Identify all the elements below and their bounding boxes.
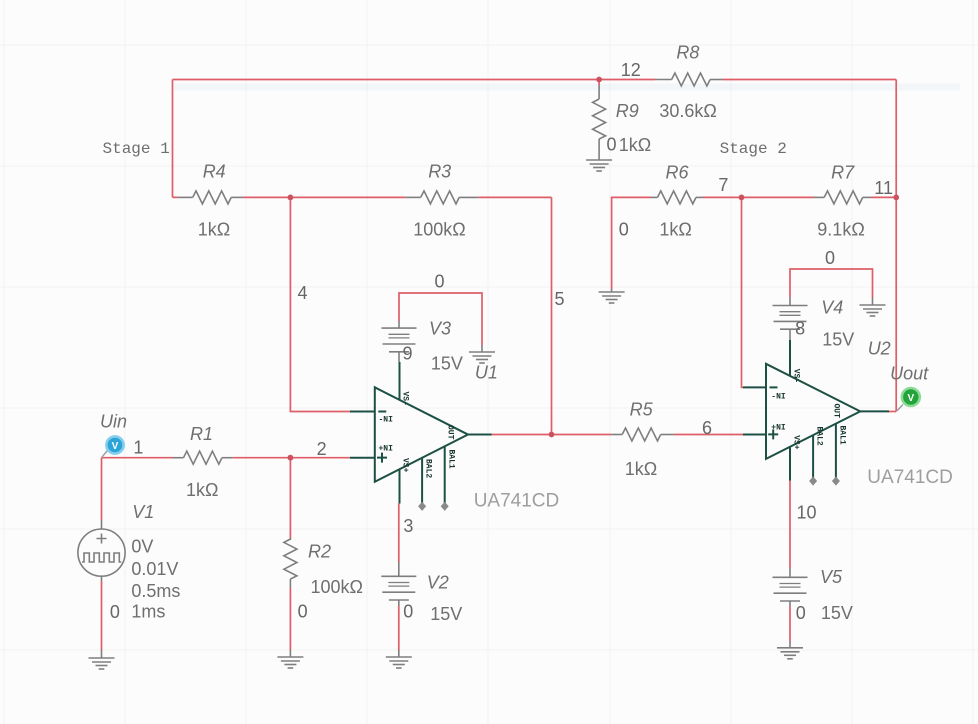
resistor R5 [611, 400, 674, 479]
wire V2 bottom to ground [398, 606, 400, 650]
svg-text:V1: V1 [132, 502, 154, 522]
svg-text:5: 5 [555, 289, 565, 309]
svg-text:V: V [112, 441, 119, 452]
battery V3 [382, 318, 463, 373]
wire node 5 vertical [551, 197, 553, 434]
junction node 11 [893, 195, 899, 201]
svg-text:VS-: VS- [791, 369, 800, 383]
svg-text:R5: R5 [630, 400, 654, 420]
wire top row right of R8 [722, 79, 896, 81]
svg-text:0: 0 [619, 219, 629, 239]
wire U1 output to node 5 junction [492, 434, 552, 436]
resistor R4 [178, 162, 243, 240]
pin BAL2 end U1 [418, 502, 426, 511]
probe Uout [890, 364, 929, 411]
svg-text:VS+: VS+ [401, 458, 410, 473]
svg-text:1kΩ: 1kΩ [186, 480, 218, 500]
svg-text:30.6kΩ: 30.6kΩ [659, 101, 717, 121]
svg-text:-NI: -NI [379, 416, 394, 425]
svg-text:0: 0 [298, 601, 308, 621]
svg-text:100kΩ: 100kΩ [413, 220, 466, 240]
svg-text:R1: R1 [190, 424, 213, 444]
wire row2 R4-R3 segments [173, 196, 552, 198]
svg-text:U1: U1 [475, 362, 498, 382]
wire node 1 row from probe to R1 [102, 457, 174, 459]
svg-text:100kΩ: 100kΩ [311, 577, 364, 597]
svg-text:6: 6 [702, 418, 712, 438]
junction node 5 output U1 [549, 432, 555, 438]
svg-text:BAL1: BAL1 [446, 450, 455, 469]
svg-text:Stage 2: Stage 2 [720, 140, 787, 158]
svg-text:15V: 15V [431, 354, 463, 374]
svg-text:1ms: 1ms [131, 602, 165, 622]
resistor R9 [593, 85, 652, 160]
svg-text:VS-: VS- [401, 392, 410, 406]
resistor R7 [814, 162, 871, 239]
svg-text:R6: R6 [666, 162, 690, 182]
svg-text:R2: R2 [308, 542, 331, 562]
svg-text:15V: 15V [821, 603, 853, 623]
svg-text:V2: V2 [427, 573, 449, 593]
svg-text:R8: R8 [676, 42, 699, 62]
wire node 7 row segment [703, 196, 814, 198]
svg-text:V: V [907, 393, 914, 404]
resistor R2 [284, 538, 363, 597]
wire V1 bottom lead to ground [101, 581, 103, 650]
svg-text:0V: 0V [131, 537, 153, 557]
op-amp U1 UA741CD [350, 362, 559, 512]
ground right of V4 [860, 298, 886, 316]
probe Uin [100, 412, 127, 458]
ground below R2 [277, 650, 303, 668]
op-amp U2 UA741CD [743, 339, 953, 489]
pin BAL1 end U2 [832, 476, 840, 485]
svg-text:VS+: VS+ [791, 435, 800, 450]
svg-text:4: 4 [298, 283, 308, 303]
wire node 4 vertical to U1 inverting input [290, 197, 350, 411]
svg-text:8: 8 [795, 319, 805, 339]
svg-text:0: 0 [403, 601, 413, 621]
ground below V1 [89, 650, 115, 669]
wire R9 top stub [598, 80, 600, 86]
battery V5 [773, 567, 853, 623]
wire node 11 row segment [871, 196, 896, 198]
wire R5 row segments node 6 [552, 434, 744, 436]
svg-text:0: 0 [110, 602, 120, 622]
svg-text:Uout: Uout [890, 364, 929, 384]
wire node 2 row R1 to U1 noninverting input [233, 457, 350, 459]
svg-text:R3: R3 [428, 162, 451, 182]
ground below V5 [777, 641, 803, 659]
wire top feedback row node 12 [173, 79, 656, 81]
svg-text:0.01V: 0.01V [131, 559, 178, 579]
svg-text:10: 10 [797, 502, 817, 522]
svg-text:1kΩ: 1kΩ [619, 135, 651, 155]
pin BAL2 end U2 [809, 476, 817, 485]
battery V2 [381, 562, 462, 624]
wire V1 top lead [101, 458, 103, 520]
svg-text:+NI: +NI [771, 424, 786, 433]
svg-text:3: 3 [403, 516, 413, 536]
svg-text:OUT: OUT [446, 425, 455, 440]
svg-text:0: 0 [607, 135, 617, 155]
resistor R3 [406, 162, 479, 240]
junction node 7 [739, 195, 745, 201]
svg-text:UA741CD: UA741CD [867, 467, 953, 488]
wire V4 zero-net box [790, 269, 873, 298]
svg-text:15V: 15V [430, 604, 462, 624]
svg-text:1kΩ: 1kΩ [659, 219, 691, 239]
pin BAL1 end U1 [441, 502, 449, 511]
svg-text:1: 1 [133, 437, 143, 457]
ground below R6 node 0 [599, 289, 625, 303]
svg-text:11: 11 [874, 178, 893, 198]
wire U2 output to node 11 [889, 411, 897, 413]
resistor R6 [651, 162, 703, 239]
ground below R9 node 0 [586, 160, 612, 171]
svg-text:R4: R4 [203, 162, 226, 182]
svg-text:BAL2: BAL2 [424, 459, 433, 478]
svg-text:0.5ms: 0.5ms [131, 581, 180, 601]
svg-text:UA741CD: UA741CD [474, 491, 560, 512]
svg-text:V4: V4 [821, 298, 843, 318]
wire R6 left leg to ground [612, 197, 651, 289]
svg-text:7: 7 [718, 175, 728, 195]
svg-text:Stage 1: Stage 1 [103, 140, 170, 158]
svg-text:1kΩ: 1kΩ [198, 220, 230, 240]
wire R2 bottom to ground [289, 588, 291, 650]
ground below V2 [386, 650, 412, 668]
junction node 12 [596, 77, 602, 83]
wire V5 bottom to ground [789, 607, 791, 642]
svg-text:0: 0 [435, 272, 445, 292]
wire U1 VS+ to V2 [398, 504, 400, 563]
svg-text:0: 0 [796, 603, 806, 623]
svg-text:OUT: OUT [832, 404, 841, 419]
svg-text:R7: R7 [831, 162, 855, 182]
svg-text:BAL1: BAL1 [837, 426, 846, 445]
battery V4 [773, 297, 855, 350]
svg-text:15V: 15V [822, 330, 854, 350]
wire node 11 vertical right edge [895, 80, 897, 412]
svg-text:9: 9 [403, 344, 413, 364]
wire node 7 vertical to U2 inverting input [742, 197, 744, 387]
svg-text:0: 0 [825, 248, 835, 268]
junction node 2 [288, 455, 294, 461]
svg-text:BAL2: BAL2 [815, 427, 824, 446]
resistor R8 [655, 42, 722, 121]
svg-text:+NI: +NI [379, 445, 394, 454]
svg-text:Uin: Uin [100, 412, 127, 432]
wire V3 zero-net box [399, 293, 482, 345]
voltage source V1 pulse [78, 502, 181, 622]
wire left vertical stage1 feedback [172, 80, 174, 198]
wire node 2 to R2 [289, 458, 291, 538]
svg-text:V5: V5 [820, 567, 843, 587]
resistor R1 [173, 424, 233, 500]
svg-text:12: 12 [621, 60, 641, 80]
svg-text:R9: R9 [616, 101, 639, 121]
wire U2 VS+ to V5 [789, 481, 791, 569]
svg-text:V3: V3 [429, 318, 451, 338]
svg-text:U2: U2 [868, 339, 891, 359]
ground right of V3 [469, 345, 495, 363]
svg-text:2: 2 [317, 439, 327, 459]
junction row2 node 4 [288, 195, 294, 201]
svg-text:9.1kΩ: 9.1kΩ [817, 220, 864, 240]
svg-text:1kΩ: 1kΩ [625, 459, 657, 479]
svg-text:-NI: -NI [771, 393, 786, 402]
